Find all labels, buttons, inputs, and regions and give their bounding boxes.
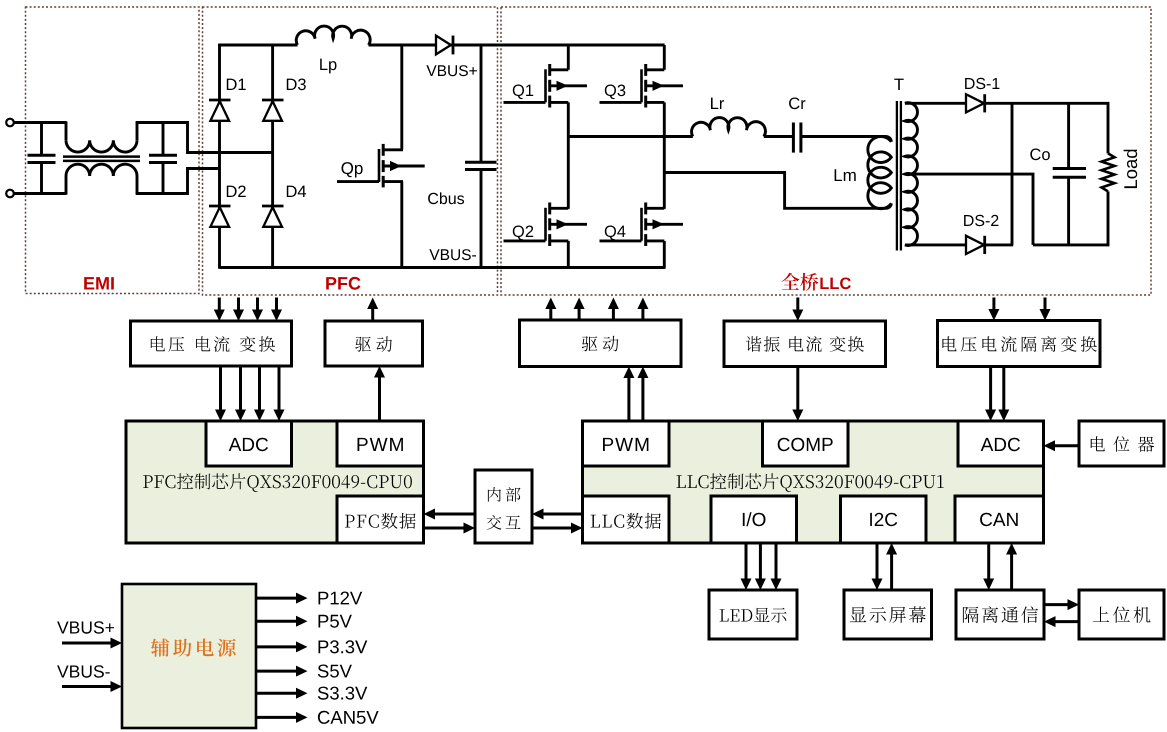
block LLC数据 — [583, 496, 670, 543]
capacitor Cx2 — [162, 123, 165, 156]
wire Q1 drain — [567, 45, 570, 70]
arrow 显示屏幕 to I2C — [890, 554, 893, 591]
label S3.3V — [318, 687, 368, 700]
arrow into 谐振电流变换 — [796, 298, 799, 311]
PFC section dashed box — [203, 7, 498, 295]
wire input bottom — [14, 192, 66, 195]
arrow 电压电流变换 to ADC 1 — [219, 366, 222, 411]
block PFC数据 — [337, 496, 424, 543]
label P3.3V — [319, 640, 368, 653]
wire Cr to Lm — [801, 137, 891, 142]
block ADC llc — [958, 421, 1044, 466]
arrow 电压电流变换 to ADC 3 — [258, 366, 261, 411]
capacitor Cr — [792, 123, 795, 153]
transformer T core — [896, 101, 898, 251]
arrow 驱动 LLC up 1 — [549, 308, 552, 320]
wire DS-2 out — [984, 243, 1014, 246]
block 电压电流隔离变换 — [938, 321, 1101, 367]
arrow PWM to 驱动 PFC — [378, 377, 381, 422]
label T — [894, 79, 903, 90]
diode DS-2 — [966, 236, 984, 254]
arrow 电压电流变换 to ADC 4 — [278, 366, 281, 411]
common-mode choke bottom winding — [65, 176, 68, 195]
label Lm — [835, 169, 856, 181]
arrow 电压电流变换 to ADC 2 — [239, 366, 242, 411]
block COMP — [763, 421, 849, 466]
wire top rail PFC — [218, 44, 297, 47]
block 内部交互 — [475, 470, 532, 543]
wire Qp drain — [400, 45, 403, 150]
block LED显示 — [709, 590, 797, 639]
label Q1 — [513, 85, 533, 100]
arrow VBUS+ into aux — [62, 642, 112, 645]
wire Q1-Q2 leg — [567, 102, 570, 208]
arrow PFC sense 1 down — [218, 298, 221, 311]
transistor Qp — [378, 149, 381, 182]
arrow CAN to 隔离通信 — [987, 543, 990, 580]
wire top rail to diode — [369, 44, 437, 47]
label P12V — [319, 592, 363, 605]
label P5V — [319, 615, 352, 628]
wire Q4 source — [663, 241, 666, 269]
block 电位器 — [1079, 421, 1164, 466]
arrow PFC数据 to 内部交互 — [424, 527, 465, 530]
arrow aux out P3.3V — [256, 645, 297, 648]
EMI section dashed box — [26, 7, 200, 294]
block 隔离通信 — [956, 590, 1044, 639]
arrow aux out P12V — [256, 597, 297, 600]
diode DS-1 — [966, 94, 984, 112]
arrow PFC sense 2 down — [237, 298, 240, 311]
block 辅助电源 — [122, 584, 256, 728]
arrow 谐振电流变换 to COMP — [796, 367, 799, 411]
label VBUS- aux — [57, 665, 110, 677]
transistor Q2 — [544, 208, 547, 241]
label Co — [1030, 149, 1050, 161]
wire bottom rail — [220, 266, 665, 269]
diode D3 — [262, 99, 284, 102]
LLC section dashed box — [501, 7, 1151, 295]
block I/O — [711, 496, 797, 543]
wire Q3-Q4 leg — [663, 102, 666, 208]
wire Q2 source — [567, 241, 570, 269]
resistor Load — [1107, 102, 1110, 153]
arrow PWM to 驱动 LLC 2 — [641, 377, 644, 421]
arrow 电位器 to ADC — [1054, 444, 1079, 447]
label 全桥LLC — [781, 273, 818, 291]
wire bridge right leg — [271, 44, 274, 269]
arrow PFC sense 3 down — [256, 298, 259, 311]
wire Lr to Cr — [764, 135, 794, 138]
arrow 隔离通信 to 上位机 — [1044, 603, 1069, 606]
wire input top — [14, 121, 66, 124]
common-mode choke top winding — [65, 121, 68, 140]
block CAN — [955, 496, 1044, 543]
wire center tap — [905, 174, 1033, 245]
arrow 隔离变换 to ADC 1 — [989, 367, 992, 411]
common-mode choke core — [63, 155, 140, 158]
arrow into 电压电流隔离变换 1 — [992, 298, 995, 311]
wire secondary bottom to DS-2 — [905, 243, 966, 246]
input terminal top — [6, 119, 14, 127]
label DS-2 — [964, 215, 998, 226]
arrow 驱动 LLC up 3 — [612, 308, 615, 320]
label Cr — [789, 98, 805, 110]
label PFC控制芯片QXS320F0049-CPU0 — [143, 473, 412, 492]
wire Q3 drain — [663, 45, 666, 70]
block 电压电流变换 — [131, 321, 292, 366]
arrow 隔离变换 to ADC 2 — [1002, 367, 1005, 411]
wire secondary top to DS-1 — [905, 102, 966, 105]
inductor Lm — [868, 137, 891, 209]
inductor Lp — [296, 26, 370, 45]
label VBUS+ aux — [57, 621, 114, 633]
arrow 上位机 to 隔离通信 — [1055, 620, 1080, 623]
arrow 隔离通信 to CAN — [1010, 554, 1013, 591]
label D3 — [287, 79, 306, 91]
wire output top rail — [984, 102, 1110, 105]
arrow aux out S3.3V — [256, 692, 297, 695]
arrow I2C to 显示屏幕 — [876, 543, 879, 580]
label CAN5V — [318, 711, 379, 724]
wire EMI out top — [136, 123, 274, 153]
arrow I/O to LED显示 1 — [745, 543, 748, 580]
arrow 驱动 PFC up — [371, 308, 374, 321]
arrow aux out CAN5V — [256, 716, 297, 719]
diode D2 — [209, 205, 231, 208]
label D1 — [227, 79, 246, 90]
capacitor Cbus — [480, 45, 483, 162]
label D4 — [287, 186, 306, 197]
label VBUS+ — [426, 65, 477, 76]
wire output bottom rail — [1033, 243, 1109, 246]
arrow 驱动 LLC up 2 — [578, 308, 581, 320]
arrow PFC sense 4 down — [275, 298, 278, 311]
label EMI — [84, 277, 114, 289]
arrow aux out P5V — [256, 620, 297, 623]
wire bridge left leg — [218, 44, 221, 269]
arrow I/O to LED显示 3 — [775, 543, 778, 580]
label VBUS- — [429, 249, 476, 260]
transistor Q1 — [544, 69, 547, 102]
capacitor Co — [1067, 103, 1070, 168]
arrow VBUS- into aux — [62, 685, 112, 688]
wire Lm bottom bend — [884, 203, 891, 208]
label PFC — [326, 277, 360, 290]
capacitor Cx1 — [40, 123, 43, 156]
wire Qp source — [400, 182, 403, 269]
label Lp — [320, 59, 336, 74]
block 驱动 LLC — [520, 320, 682, 367]
diode D4 — [262, 205, 284, 208]
label S5V — [318, 665, 352, 678]
arrow LLC数据 to 内部交互 — [532, 527, 572, 530]
arrow into 电压电流隔离变换 2 — [1044, 298, 1047, 311]
block 显示屏幕 — [844, 590, 932, 639]
block I2C — [841, 496, 927, 543]
block 驱动 PFC — [325, 321, 423, 366]
arrow 内部交互 to LLC数据 — [543, 513, 583, 516]
chip LLC control CPU1 — [583, 421, 1044, 543]
block PWM llc — [583, 421, 670, 466]
diode VBUS+ boost — [436, 36, 451, 55]
label Q4 — [605, 226, 626, 241]
wire top rail diode to LLC — [451, 44, 665, 47]
wire bridge mid A to Lr — [568, 135, 693, 138]
arrow I/O to LED显示 2 — [759, 543, 762, 580]
label Lr — [711, 98, 724, 109]
inductor Lr — [692, 118, 766, 137]
arrow 驱动 LLC up 4 — [641, 308, 644, 320]
label D2 — [227, 186, 246, 198]
block ADC pfc — [206, 421, 292, 466]
transistor Q3 — [640, 69, 643, 102]
label Q2 — [513, 226, 533, 241]
label Qp — [342, 162, 363, 177]
label Q3 — [605, 85, 626, 100]
label Cbus — [428, 192, 464, 204]
diode D1 — [209, 99, 231, 102]
transformer secondary winding — [905, 103, 918, 246]
wire EMI out bottom — [136, 169, 221, 194]
input terminal bottom — [6, 190, 14, 198]
wire bridge mid B return — [664, 173, 883, 209]
block PWM pfc — [337, 421, 424, 466]
label LLC控制芯片QXS320F0049-CPU1 — [677, 473, 944, 492]
wire rectifier junction vertical — [1011, 103, 1014, 245]
chip PFC control CPU0 — [126, 421, 424, 543]
block 谐振电流变换 — [724, 321, 886, 367]
arrow aux out S5V — [256, 670, 297, 673]
label Load — [1124, 150, 1138, 189]
label DS-1 — [965, 78, 999, 89]
block 上位机 — [1079, 590, 1164, 639]
arrow PWM to 驱动 LLC 1 — [627, 377, 630, 421]
arrow 内部交互 to PFC数据 — [434, 513, 475, 516]
transistor Q4 — [640, 208, 643, 241]
